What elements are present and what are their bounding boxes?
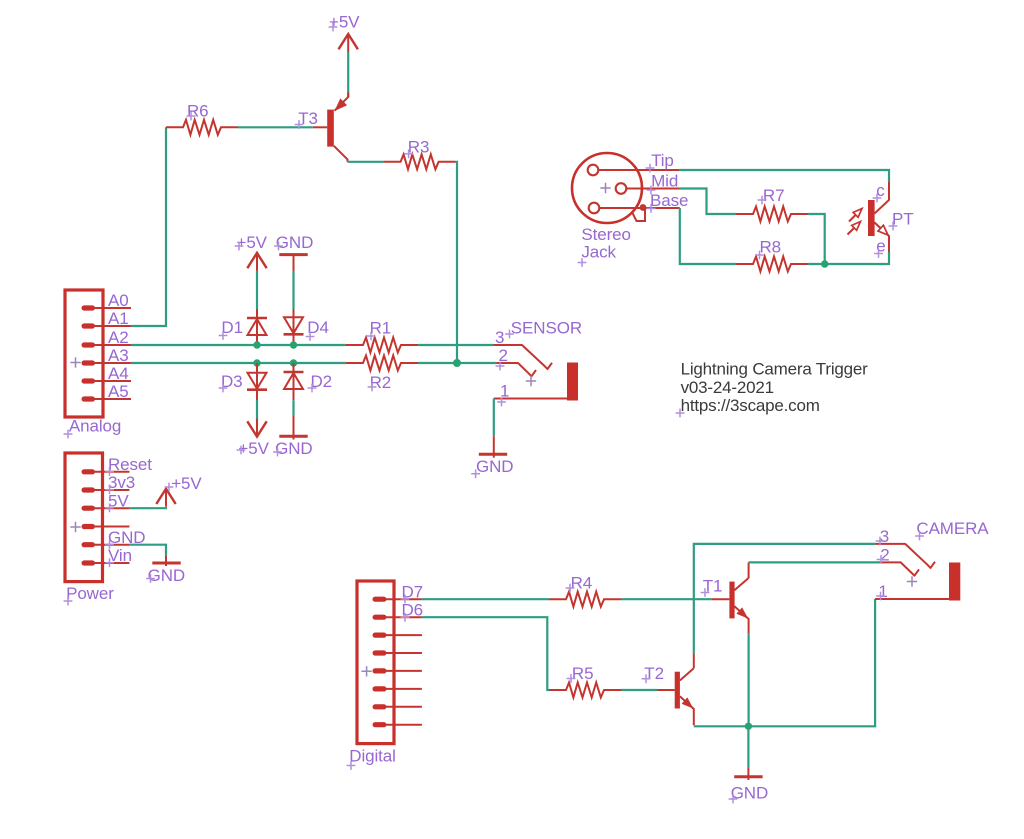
pin wire D1 bottom <box>256 336 258 345</box>
svg-text:https://3scape.com: https://3scape.com <box>681 396 820 415</box>
transistor T1 <box>729 582 734 619</box>
connector CAMERA jack pin 2 <box>881 562 919 575</box>
wire D2 to GND <box>292 400 294 415</box>
junction D2-A3 <box>290 359 297 366</box>
resistor R8 <box>736 257 808 272</box>
connector SENSOR jack body <box>567 363 578 401</box>
wire R6 to T3 base <box>238 126 313 128</box>
svg-text:Base: Base <box>650 191 688 210</box>
wire T1 collector to CAMERA pin2 <box>749 561 881 563</box>
power +5V symbol (diodes bottom) <box>247 421 266 436</box>
svg-text:+5V: +5V <box>238 439 269 458</box>
svg-text:SENSOR: SENSOR <box>511 319 582 338</box>
wire A1 to R6 <box>131 127 166 326</box>
svg-text:CAMERA: CAMERA <box>916 519 989 538</box>
svg-text:Reset: Reset <box>108 455 152 474</box>
junction R7-R8 <box>821 260 828 267</box>
wire emitter common net <box>694 599 875 726</box>
diode D1 <box>247 317 267 320</box>
pin wire D3 top <box>256 363 258 373</box>
pin wire D2 bottom <box>293 389 295 400</box>
svg-text:+5V: +5V <box>237 233 268 252</box>
wire Mid net <box>679 189 736 215</box>
svg-text:D1: D1 <box>221 318 243 337</box>
resistor R5 <box>549 683 621 698</box>
pin wire Base <box>600 207 680 209</box>
wire SENSOR pin1 to GND <box>493 399 495 437</box>
transistor T2 <box>675 672 680 709</box>
wire R7 to junction <box>808 214 825 264</box>
svg-text:R1: R1 <box>370 319 392 338</box>
wire R1 to SENSOR pin3 <box>418 344 493 346</box>
svg-text:R7: R7 <box>763 186 785 205</box>
svg-text:A0: A0 <box>108 291 129 310</box>
svg-text:Mid: Mid <box>651 172 678 191</box>
wire T2 collector to CAMERA pin3 <box>694 544 875 654</box>
resistor R4 <box>549 592 621 607</box>
svg-text:A1: A1 <box>108 309 129 328</box>
junction D3-A3 <box>253 359 260 366</box>
ground GND symbol (diodes top) <box>279 253 307 256</box>
svg-text:R6: R6 <box>187 102 209 121</box>
connector Stereo Jack body <box>572 153 642 223</box>
svg-text:A5: A5 <box>108 382 129 401</box>
svg-text:T2: T2 <box>644 664 664 683</box>
wire A2 net <box>131 344 346 346</box>
connector CAMERA jack pin 3 <box>875 544 935 568</box>
svg-text:R8: R8 <box>760 238 782 257</box>
svg-text:Analog: Analog <box>69 417 121 436</box>
resistor R1 <box>346 338 418 353</box>
pin wire D3 bottom <box>256 390 258 400</box>
wire T1 emitter down <box>747 634 749 727</box>
wire D3 to +5V <box>256 400 258 421</box>
pin wire D2 top <box>293 363 295 372</box>
svg-text:3: 3 <box>495 328 504 347</box>
connector Analog header <box>65 290 103 417</box>
wire R4 to T1 base <box>621 598 712 600</box>
pin wire Mid <box>627 188 679 190</box>
wire +5V to T3 emitter <box>347 52 349 97</box>
wire R2 to SENSOR pin2 <box>418 362 496 364</box>
svg-text:Digital: Digital <box>349 747 396 766</box>
diode D3 <box>247 388 267 391</box>
power +5V symbol (Power) <box>156 489 175 504</box>
svg-text:R2: R2 <box>370 373 392 392</box>
svg-text:Jack: Jack <box>581 243 616 262</box>
svg-text:A4: A4 <box>108 364 129 383</box>
junction emitters-GND <box>745 723 752 730</box>
pin wire D4 bottom <box>293 336 295 346</box>
svg-text:v03-24-2021: v03-24-2021 <box>681 378 774 397</box>
wire D6 to R5 <box>422 617 549 690</box>
transistor T3 <box>327 110 334 147</box>
svg-text:+5V: +5V <box>171 474 202 493</box>
svg-text:Power: Power <box>66 584 114 603</box>
wire A3 net <box>131 362 346 364</box>
diode D4 <box>284 333 304 336</box>
wire Base net <box>680 208 736 264</box>
svg-text:Stereo: Stereo <box>581 225 631 244</box>
svg-text:GND: GND <box>276 233 313 252</box>
junction D4-A2 <box>290 341 297 348</box>
transistor PT <box>868 200 875 236</box>
connector SENSOR jack pin 2 <box>496 363 536 376</box>
wire 5V pin to +5V <box>129 507 166 508</box>
svg-text:GND: GND <box>148 566 185 585</box>
wire GND to D4 <box>292 271 294 309</box>
wire junction to GND <box>747 726 749 767</box>
wire GND pin to GND <box>129 545 166 556</box>
svg-text:Lightning Camera Trigger: Lightning Camera Trigger <box>681 360 869 379</box>
svg-text:e: e <box>876 236 885 255</box>
junction R3-A3 <box>453 359 461 367</box>
pin wire Tip <box>599 169 680 171</box>
resistor R7 <box>736 207 808 222</box>
svg-text:GND: GND <box>731 784 768 803</box>
wire Tip net <box>679 170 889 182</box>
junction D1-A2 <box>253 341 260 348</box>
ground GND symbol (Power) <box>152 562 180 565</box>
resistor R6 <box>166 120 238 135</box>
diode D2 <box>284 371 304 374</box>
wire T3 collector to R3 <box>348 161 384 163</box>
connector CAMERA jack body <box>949 563 960 601</box>
junction Base-sleeve <box>640 204 647 211</box>
pin wire D1 top <box>256 309 258 318</box>
wire D7 to R4 <box>422 598 549 600</box>
wire +5V to D1 <box>256 271 258 309</box>
svg-text:R5: R5 <box>572 664 594 683</box>
svg-text:3: 3 <box>880 527 889 546</box>
wire R5 to T2 base <box>621 689 657 691</box>
connector Power header <box>65 453 103 582</box>
pin wire D4 top <box>293 309 295 317</box>
power +5V symbol (T3 emitter) <box>339 34 358 49</box>
svg-text:GND: GND <box>476 457 513 476</box>
ground GND symbol (SENSOR) <box>479 453 507 456</box>
svg-text:A3: A3 <box>108 346 129 365</box>
svg-text:Tip: Tip <box>651 151 674 170</box>
wire R8 to PT emitter <box>808 252 889 264</box>
wire R3 to A3 net junction <box>456 162 457 363</box>
ground GND symbol (emitters) <box>734 775 762 778</box>
ground GND symbol (diodes bottom) <box>279 435 307 438</box>
power +5V symbol (diodes top) <box>247 253 266 268</box>
resistor R2 <box>346 356 418 371</box>
svg-text:A2: A2 <box>108 328 129 347</box>
connector Digital header <box>357 581 394 744</box>
connector SENSOR jack pin 3 <box>493 345 552 369</box>
svg-text:GND: GND <box>275 439 312 458</box>
resistor R3 <box>384 154 456 169</box>
svg-text:R4: R4 <box>571 574 593 593</box>
